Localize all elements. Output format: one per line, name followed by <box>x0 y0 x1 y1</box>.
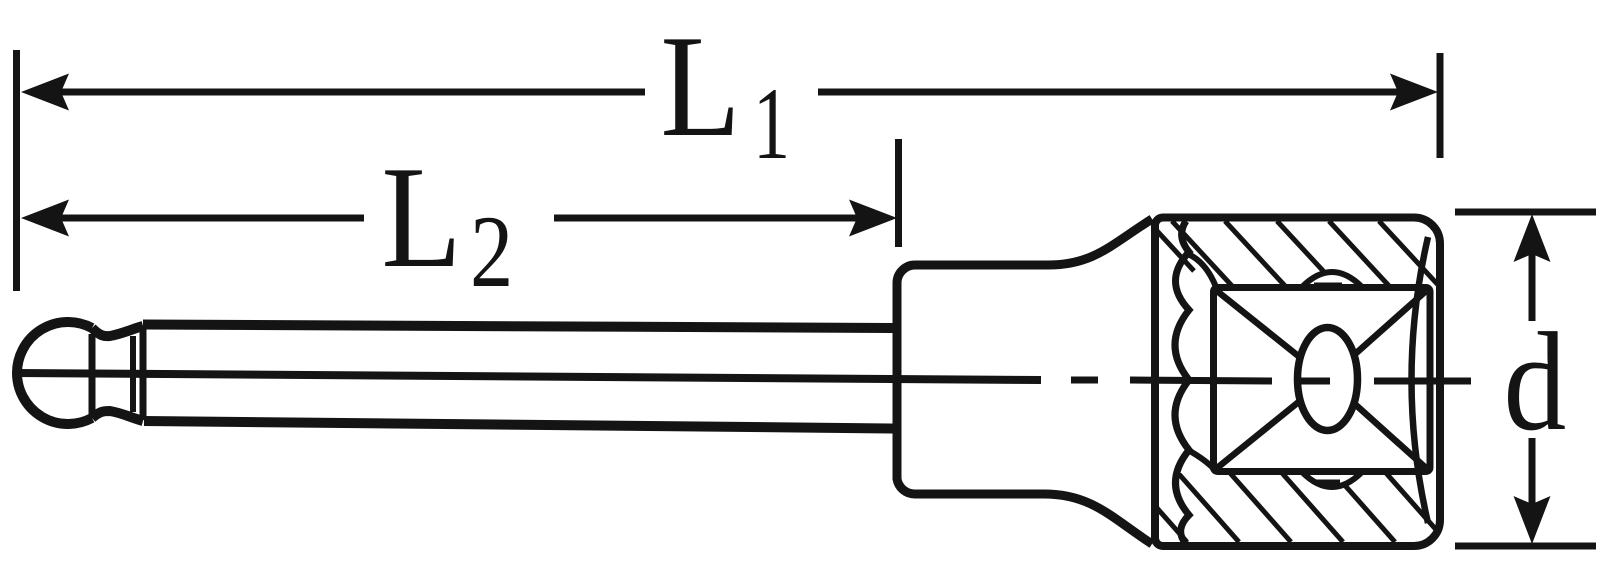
diagonal top-right <box>1327 291 1426 379</box>
dimension line L1 right segment <box>818 89 1398 96</box>
dimension d upper line <box>1529 252 1536 321</box>
arrowhead L1 right <box>1390 74 1438 111</box>
diagonal bottom-right <box>1327 379 1426 468</box>
detent bump top inner line <box>1314 283 1342 288</box>
svg-text:2: 2 <box>470 194 513 309</box>
detent bump bottom inner line <box>1316 480 1340 485</box>
detent bump bottom <box>1302 472 1362 487</box>
dimension d bottom tick <box>1455 543 1596 550</box>
svg-text:L: L <box>381 137 461 299</box>
neck bottom outline <box>92 411 143 421</box>
diagonal top-left <box>1217 291 1327 379</box>
arrowhead L2 left <box>21 200 69 237</box>
shaft top edge <box>143 325 895 329</box>
center line segment 3 <box>1374 378 1471 385</box>
neck top outline <box>92 326 143 336</box>
dimension line L1 left segment <box>58 89 645 96</box>
dimension d lower line <box>1529 438 1536 506</box>
shaft bottom edge <box>144 421 895 429</box>
detent bump top <box>1302 272 1362 287</box>
dimension d top tick <box>1455 209 1596 216</box>
arrowhead L2 right <box>849 200 897 237</box>
arrowhead d up <box>1514 214 1551 262</box>
center line segment 2 <box>1130 380 1272 381</box>
scallop connector top <box>1188 254 1216 287</box>
svg-text:L: L <box>660 6 740 168</box>
socket body <box>1155 218 1440 547</box>
center line segment 1 <box>15 373 1041 380</box>
tick L2 right <box>895 139 902 247</box>
extension line left <box>13 50 20 291</box>
hatching top band <box>1146 219 1440 287</box>
ball end arc <box>17 322 92 424</box>
diagonal bottom-left <box>1217 379 1327 468</box>
center hole ellipse <box>1298 328 1358 431</box>
right inner wall arc <box>1412 237 1429 523</box>
collar outline <box>897 219 1152 544</box>
ball chamfer line <box>89 334 96 414</box>
svg-text:d: d <box>1504 303 1567 459</box>
center line dash 1 <box>1071 377 1098 384</box>
arrowhead L1 left <box>21 74 69 111</box>
scallop connector bottom <box>1188 450 1216 471</box>
svg-text:1: 1 <box>753 67 790 181</box>
neck chamfer line 1 <box>130 336 136 412</box>
arrowhead d down <box>1514 496 1551 544</box>
center line dash 2 <box>1300 378 1330 385</box>
tick L1 right <box>1437 53 1444 158</box>
scallop profile line <box>1175 221 1189 544</box>
dimension line L2 left segment <box>58 215 364 222</box>
hatching bottom band <box>1126 473 1447 542</box>
inner drive square <box>1214 288 1431 472</box>
dimension line L2 right segment <box>554 215 857 222</box>
neck chamfer line 2 <box>140 326 147 420</box>
